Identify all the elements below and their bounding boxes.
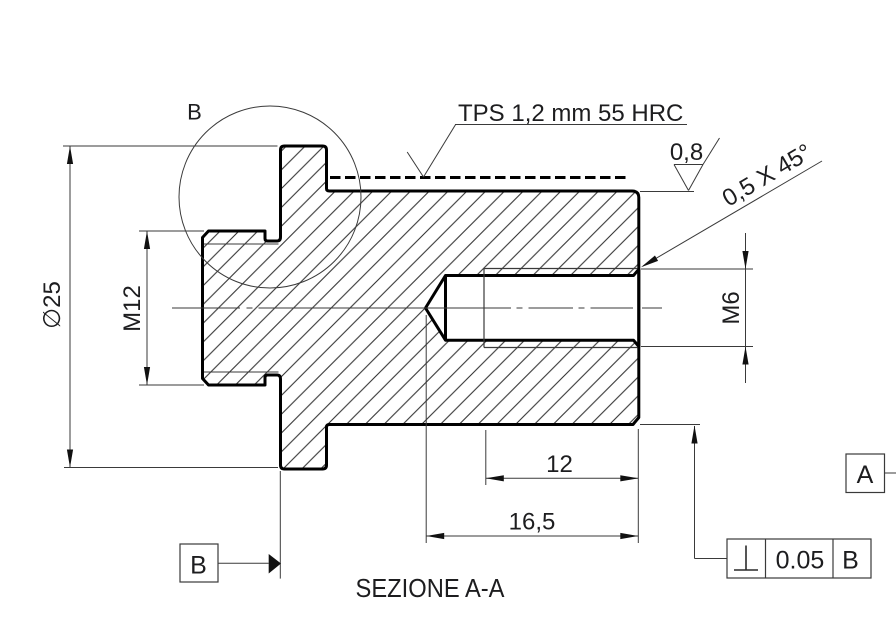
symbol left leg — [674, 165, 689, 191]
extension line top — [63, 145, 278, 147]
arrowhead right — [620, 475, 638, 481]
arrowhead down — [742, 251, 748, 269]
svg-text:0,5 X 45°: 0,5 X 45° — [718, 139, 817, 213]
underline — [455, 124, 687, 126]
dimension line — [146, 231, 148, 385]
dimension phi 25 — [39, 146, 278, 468]
leader arrowhead — [691, 426, 697, 444]
symbol right leg — [689, 165, 704, 191]
perpendicularity symbol — [745, 546, 747, 570]
arrowhead up — [144, 231, 150, 249]
arrowhead down — [144, 367, 150, 385]
tapped hole M6 void outline with entry chamfer and drill cone — [426, 269, 639, 346]
surface extension line — [640, 191, 694, 193]
case hardening zone dashed line — [330, 176, 628, 179]
svg-text:B: B — [187, 100, 202, 125]
view direction triangle — [269, 554, 281, 574]
symbol bar — [674, 164, 703, 166]
label box — [180, 544, 218, 582]
dimension 12 (thread length) — [486, 429, 639, 543]
detail circle B — [179, 100, 361, 289]
svg-text:0,8: 0,8 — [670, 139, 703, 166]
feature control frame perpendicularity 0.05 B — [640, 425, 871, 579]
cutting plane line — [279, 471, 281, 579]
arrowhead left — [426, 533, 444, 539]
dimension line — [486, 477, 639, 479]
symbol long leg — [703, 138, 720, 165]
extension line left — [485, 430, 487, 485]
arrowhead right — [620, 533, 638, 539]
frame box — [727, 539, 871, 578]
svg-text:SEZIONE A-A: SEZIONE A-A — [356, 573, 506, 603]
part outline (bushing cross-section profile) — [203, 146, 639, 469]
svg-text:M12: M12 — [119, 285, 146, 332]
leader barb — [407, 152, 423, 177]
svg-text:B: B — [190, 552, 207, 580]
dimension M6 — [641, 233, 753, 383]
arrowhead left — [486, 475, 504, 481]
extension line bottom — [64, 467, 278, 469]
drill cone base line — [444, 276, 447, 341]
leader horizontal — [695, 558, 728, 560]
arrowhead up — [67, 146, 73, 164]
svg-text:B: B — [842, 547, 859, 575]
dimension line — [426, 535, 638, 537]
leader vertical — [694, 426, 696, 559]
axis centerline — [172, 307, 662, 309]
dimension line — [745, 233, 747, 383]
M6 internal thread major-diameter thin lines and thread end — [484, 269, 638, 348]
arrowhead up — [742, 347, 748, 365]
leader line — [424, 125, 456, 178]
M12 external thread minor-diameter thin lines — [204, 244, 279, 372]
extension line top — [641, 268, 753, 270]
section cutting plane arrow B — [180, 471, 281, 582]
connector line — [218, 562, 269, 564]
svg-text:∅25: ∅25 — [39, 281, 66, 329]
extension line bottom — [139, 384, 204, 386]
extension of bottom face line — [640, 424, 700, 426]
extension line top — [139, 230, 204, 232]
datum flag A — [846, 454, 896, 493]
svg-text:16,5: 16,5 — [509, 509, 556, 536]
section hatching of part body — [203, 146, 639, 469]
dimension 16,5 (drill depth) — [426, 315, 638, 543]
surface roughness symbol 0,8 — [640, 138, 720, 192]
extension line bottom — [641, 346, 753, 348]
note TPS 1,2 mm 55 HRC with leader — [407, 100, 687, 177]
svg-text:M6: M6 — [718, 291, 745, 324]
svg-text:A: A — [857, 461, 874, 489]
extension line right — [637, 429, 639, 543]
svg-text:0.05: 0.05 — [776, 547, 825, 575]
svg-text:12: 12 — [546, 451, 573, 478]
arrowhead down — [67, 450, 73, 468]
dimension M12 — [119, 231, 204, 385]
svg-text:TPS 1,2 mm 55 HRC: TPS 1,2 mm 55 HRC — [458, 100, 683, 127]
extension line left from drill point — [425, 315, 427, 543]
chamfer note 0,5 X 45 deg with leader — [639, 139, 822, 270]
dimension line — [69, 146, 71, 468]
